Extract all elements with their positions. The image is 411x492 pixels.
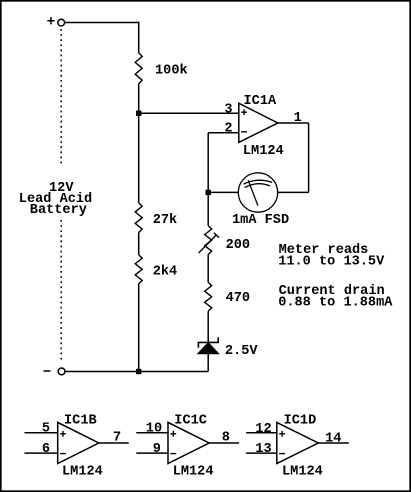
wire IC1C output	[209, 442, 239, 444]
battery plus sign	[47, 17, 54, 24]
preset VR1 200 zigzag	[205, 226, 212, 255]
svg-text:200: 200	[226, 238, 250, 253]
svg-text:3: 3	[224, 102, 232, 117]
wire 100k to junction	[138, 84, 140, 114]
battery dotted line upper segment	[60, 29, 62, 164]
wire output to meter right	[278, 191, 309, 193]
preset VR1 t-bar	[214, 233, 219, 238]
resistor R2 27k	[135, 203, 142, 233]
wire battery+ to divider top	[64, 22, 138, 24]
wire meter left	[208, 191, 238, 193]
wire divider middle	[138, 113, 140, 202]
wire zener to bottom rail	[207, 354, 209, 372]
op-amp IC1B triangle	[58, 422, 99, 463]
svg-text:2k4: 2k4	[153, 265, 177, 280]
svg-text:2.5V: 2.5V	[225, 344, 258, 359]
wire 27k to 2k4	[138, 233, 140, 255]
svg-text:9: 9	[153, 442, 161, 457]
wire 2k4 to bottom rail	[138, 284, 140, 372]
wire pin2 horizontal	[208, 132, 239, 134]
op-amp IC1C plus sign	[170, 431, 176, 437]
wire meter node to 200	[207, 192, 209, 225]
wire divider top vertical	[138, 22, 140, 53]
op-amp IC1D minus sign	[279, 453, 285, 455]
svg-text:1mA FSD: 1mA FSD	[232, 213, 289, 228]
op-amp IC1D plus sign	[279, 431, 285, 437]
op-amp IC1C minus sign	[170, 453, 176, 455]
wire IC1D +input	[246, 432, 277, 434]
svg-text:IC1B: IC1B	[64, 413, 97, 428]
wire IC1B -input	[25, 452, 58, 454]
wire 200 to 470	[207, 255, 209, 283]
meter scale arc upper	[244, 180, 273, 184]
op-amp IC1B plus sign	[60, 431, 66, 437]
wire 470 to zener	[207, 311, 209, 342]
svg-text:27k: 27k	[153, 213, 177, 228]
resistor R4 470	[205, 282, 212, 311]
svg-text:LM124: LM124	[173, 464, 214, 479]
wire IC1D -input	[246, 452, 277, 454]
wire IC1D output	[318, 442, 349, 444]
svg-text:470: 470	[226, 291, 250, 306]
svg-text:100k: 100k	[155, 64, 188, 79]
meter needle	[248, 180, 258, 206]
wire bottom rail	[65, 371, 209, 373]
zener diode D1 cathode bar	[198, 337, 218, 347]
wire junction to pin3	[139, 112, 239, 114]
battery positive terminal	[58, 19, 65, 26]
svg-text:IC1D: IC1D	[284, 413, 317, 428]
svg-text:2: 2	[224, 121, 232, 136]
svg-text:LM124: LM124	[62, 464, 103, 479]
wire IC1C -input	[136, 452, 168, 454]
zener diode D1 triangle	[198, 343, 219, 354]
wire pin2 vertical to meter node	[207, 133, 209, 193]
op-amp IC1A minus sign	[241, 131, 247, 133]
svg-text:7: 7	[113, 431, 121, 446]
node junction divider tap	[136, 111, 141, 116]
svg-text:IC1A: IC1A	[244, 94, 277, 109]
battery negative terminal	[58, 368, 65, 375]
op-amp U1 IC1A triangle	[239, 103, 278, 142]
op-amp IC1C triangle	[168, 422, 209, 463]
meter scale arc lower	[245, 184, 270, 188]
svg-text:1: 1	[294, 111, 302, 126]
svg-text:14: 14	[325, 431, 341, 446]
op-amp IC1B minus sign	[60, 453, 66, 455]
battery dotted line lower segment	[60, 220, 62, 362]
wire output pin1	[278, 122, 309, 124]
node junction bottom rail	[136, 369, 141, 374]
svg-text:5: 5	[42, 422, 50, 437]
resistor R3 2k4	[135, 255, 142, 284]
svg-text:10: 10	[146, 422, 162, 437]
wire IC1B +input	[25, 432, 58, 434]
wire output vertical	[308, 123, 310, 192]
battery minus sign	[44, 370, 51, 372]
svg-text:IC1C: IC1C	[174, 413, 207, 428]
svg-text:LM124: LM124	[282, 464, 323, 479]
svg-text:Battery: Battery	[30, 203, 87, 218]
svg-text:0.88 to 1.88mA: 0.88 to 1.88mA	[278, 295, 393, 310]
svg-text:8: 8	[222, 431, 230, 446]
op-amp IC1D triangle	[277, 422, 319, 463]
wire IC1B output	[99, 442, 129, 444]
resistor R1 100k	[135, 53, 142, 84]
preset VR1 diagonal	[199, 235, 217, 253]
svg-text:6: 6	[42, 442, 50, 457]
svg-text:LM124: LM124	[243, 144, 284, 159]
svg-text:13: 13	[255, 442, 271, 457]
op-amp IC1A plus sign	[241, 109, 247, 115]
node junction meter left	[206, 190, 211, 195]
svg-text:12: 12	[255, 422, 271, 437]
svg-text:11.0 to 13.5V: 11.0 to 13.5V	[278, 254, 385, 269]
wire IC1C +input	[136, 432, 168, 434]
meter M1 circle	[238, 173, 277, 212]
